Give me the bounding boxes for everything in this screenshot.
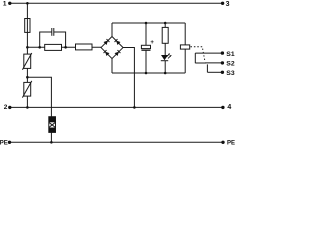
wire 2-4	[10, 106, 223, 108]
svg-text:S1: S1	[226, 51, 235, 58]
junction left of RC	[38, 46, 41, 49]
varistor RV2	[24, 82, 31, 96]
wire: main line node A to bridge	[27, 46, 101, 48]
fuse F1 (thermal disconnect)	[25, 19, 30, 33]
wire: bridge top to DC+ rail	[111, 23, 113, 37]
terminal S1 dot	[221, 51, 224, 54]
wire PE rail	[10, 141, 224, 143]
bridge diode upper-right	[116, 41, 120, 45]
gas discharge tube F2	[49, 117, 56, 133]
junction bridge column at wire 4	[133, 106, 136, 109]
wire: LED bottom lead	[164, 61, 166, 73]
diode bridge D1 outline	[101, 37, 123, 59]
mechanical link (dashed) coil to contact arm	[191, 46, 205, 48]
svg-text:3: 3	[226, 1, 230, 8]
capacitor C2 negative plate	[141, 49, 150, 51]
wire: left drop from node 1 through fuse to node A	[26, 3, 28, 47]
terminal S2 dot	[221, 61, 224, 64]
resistor R2 (series)	[76, 44, 93, 50]
junction LED bottom	[164, 72, 167, 75]
wire: relay coil bottom lead	[184, 49, 186, 73]
wire: GDT to PE	[50, 132, 52, 142]
wire: S1 down to contact pivot	[194, 53, 196, 63]
svg-text:+: +	[150, 40, 154, 46]
bridge diode lower-left	[105, 52, 109, 56]
resistor R1 (parallel with C1)	[45, 44, 62, 50]
LED D2	[161, 55, 168, 60]
contact arm K1.1	[195, 62, 206, 64]
terminal 1 dot	[8, 2, 11, 5]
capacitor C2 (electrolytic) positive plate	[141, 45, 150, 48]
svg-text:S2: S2	[226, 61, 235, 68]
node A junction	[26, 46, 29, 49]
resistor R3	[162, 27, 168, 43]
wire: S1 contact line	[195, 52, 223, 54]
svg-text:1: 1	[3, 1, 7, 8]
junction at PE rail	[50, 141, 53, 144]
junction at terminal-1 drop	[26, 2, 29, 5]
terminal 2 dot	[8, 106, 11, 109]
wire: R3 top lead	[164, 23, 166, 27]
terminal 3 dot	[221, 2, 224, 5]
svg-text:S3: S3	[226, 70, 235, 77]
svg-text:PE: PE	[227, 141, 235, 146]
junction at wire 2	[26, 106, 29, 109]
junction R3 top	[164, 22, 167, 25]
wire: S3 fixed contact stub	[206, 64, 208, 72]
terminal PE left dot	[8, 141, 11, 144]
wire: DC+ rail	[112, 22, 185, 24]
wire: bridge right corner to wire 4	[123, 48, 134, 108]
svg-text:PE: PE	[0, 140, 8, 146]
wire: C2 bottom lead	[145, 50, 147, 73]
wire: node B to GDT column	[27, 77, 51, 117]
relay coil K1	[180, 45, 189, 49]
wire: capacitor branch (parallel RC)	[40, 32, 52, 47]
svg-text:4: 4	[227, 104, 231, 111]
bridge diode upper-left	[104, 41, 108, 45]
wire: S2 contact line	[205, 62, 223, 64]
wire: S3 contact line	[207, 71, 223, 73]
junction C2 top	[145, 22, 148, 25]
bridge diode lower-right	[115, 52, 119, 56]
junction right of RC	[64, 46, 67, 49]
junction node B	[26, 76, 29, 79]
wire: R3 to LED	[164, 43, 166, 55]
wire: bridge bottom to DC- rail	[111, 59, 113, 73]
wire: varistor column	[26, 47, 28, 107]
wire: DC- rail	[112, 72, 185, 74]
svg-text:2: 2	[4, 104, 8, 111]
terminal PE right dot	[221, 141, 224, 144]
junction C2 bottom	[145, 72, 148, 75]
wire 1-3 (top line)	[10, 2, 223, 4]
terminal S3 dot	[221, 71, 224, 74]
capacitor C1 plates	[51, 28, 53, 36]
wire: relay coil top lead	[184, 23, 186, 45]
terminal 4 dot	[221, 106, 224, 109]
wire: C2 top lead	[145, 23, 147, 45]
varistor RV1	[24, 54, 31, 68]
